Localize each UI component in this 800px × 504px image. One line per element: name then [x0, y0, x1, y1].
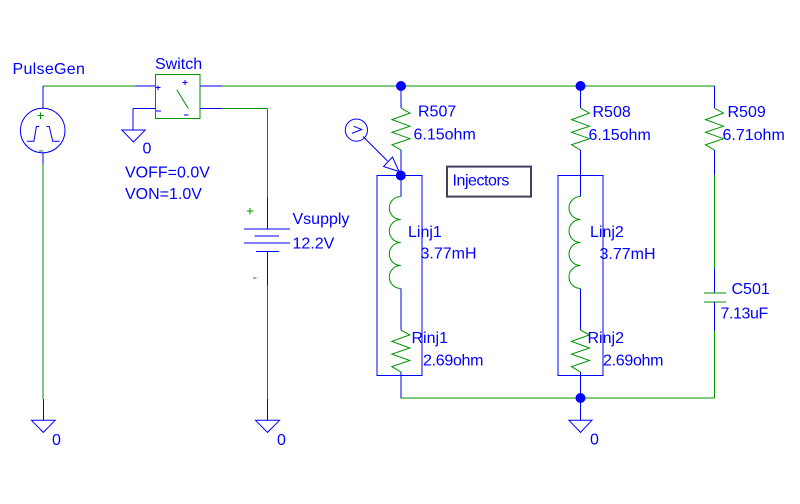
svg-text:Linj1: Linj1 — [408, 224, 442, 241]
svg-text:0: 0 — [590, 432, 599, 449]
svg-text:2.69ohm: 2.69ohm — [423, 353, 483, 370]
svg-text:Injectors: Injectors — [453, 173, 510, 190]
svg-text:3.77mH: 3.77mH — [600, 246, 656, 263]
svg-text:2.69ohm: 2.69ohm — [603, 353, 663, 370]
svg-text:6.71ohm: 6.71ohm — [723, 127, 785, 144]
svg-text:3.77mH: 3.77mH — [421, 246, 477, 263]
svg-text:0: 0 — [143, 141, 152, 158]
svg-text:Switch: Switch — [155, 56, 202, 73]
svg-text:Rinj2: Rinj2 — [588, 330, 625, 347]
svg-text:VON=1.0V: VON=1.0V — [125, 186, 202, 203]
svg-text:Linj2: Linj2 — [590, 224, 624, 241]
svg-text:6.15ohm: 6.15ohm — [589, 127, 651, 144]
svg-text:12.2V: 12.2V — [293, 236, 335, 253]
svg-text:VOFF=0.0V: VOFF=0.0V — [125, 165, 210, 182]
svg-text:Vsupply: Vsupply — [293, 211, 350, 228]
svg-text:0: 0 — [52, 432, 61, 449]
svg-text:PulseGen: PulseGen — [13, 61, 86, 78]
svg-text:Rinj1: Rinj1 — [412, 330, 449, 347]
svg-text:6.15ohm: 6.15ohm — [414, 127, 476, 144]
svg-text:C501: C501 — [732, 281, 770, 298]
svg-text:R507: R507 — [418, 104, 456, 121]
svg-text:7.13uF: 7.13uF — [721, 306, 769, 323]
svg-text:0: 0 — [277, 432, 286, 449]
svg-text:R509: R509 — [728, 104, 766, 121]
svg-text:R508: R508 — [593, 104, 631, 121]
